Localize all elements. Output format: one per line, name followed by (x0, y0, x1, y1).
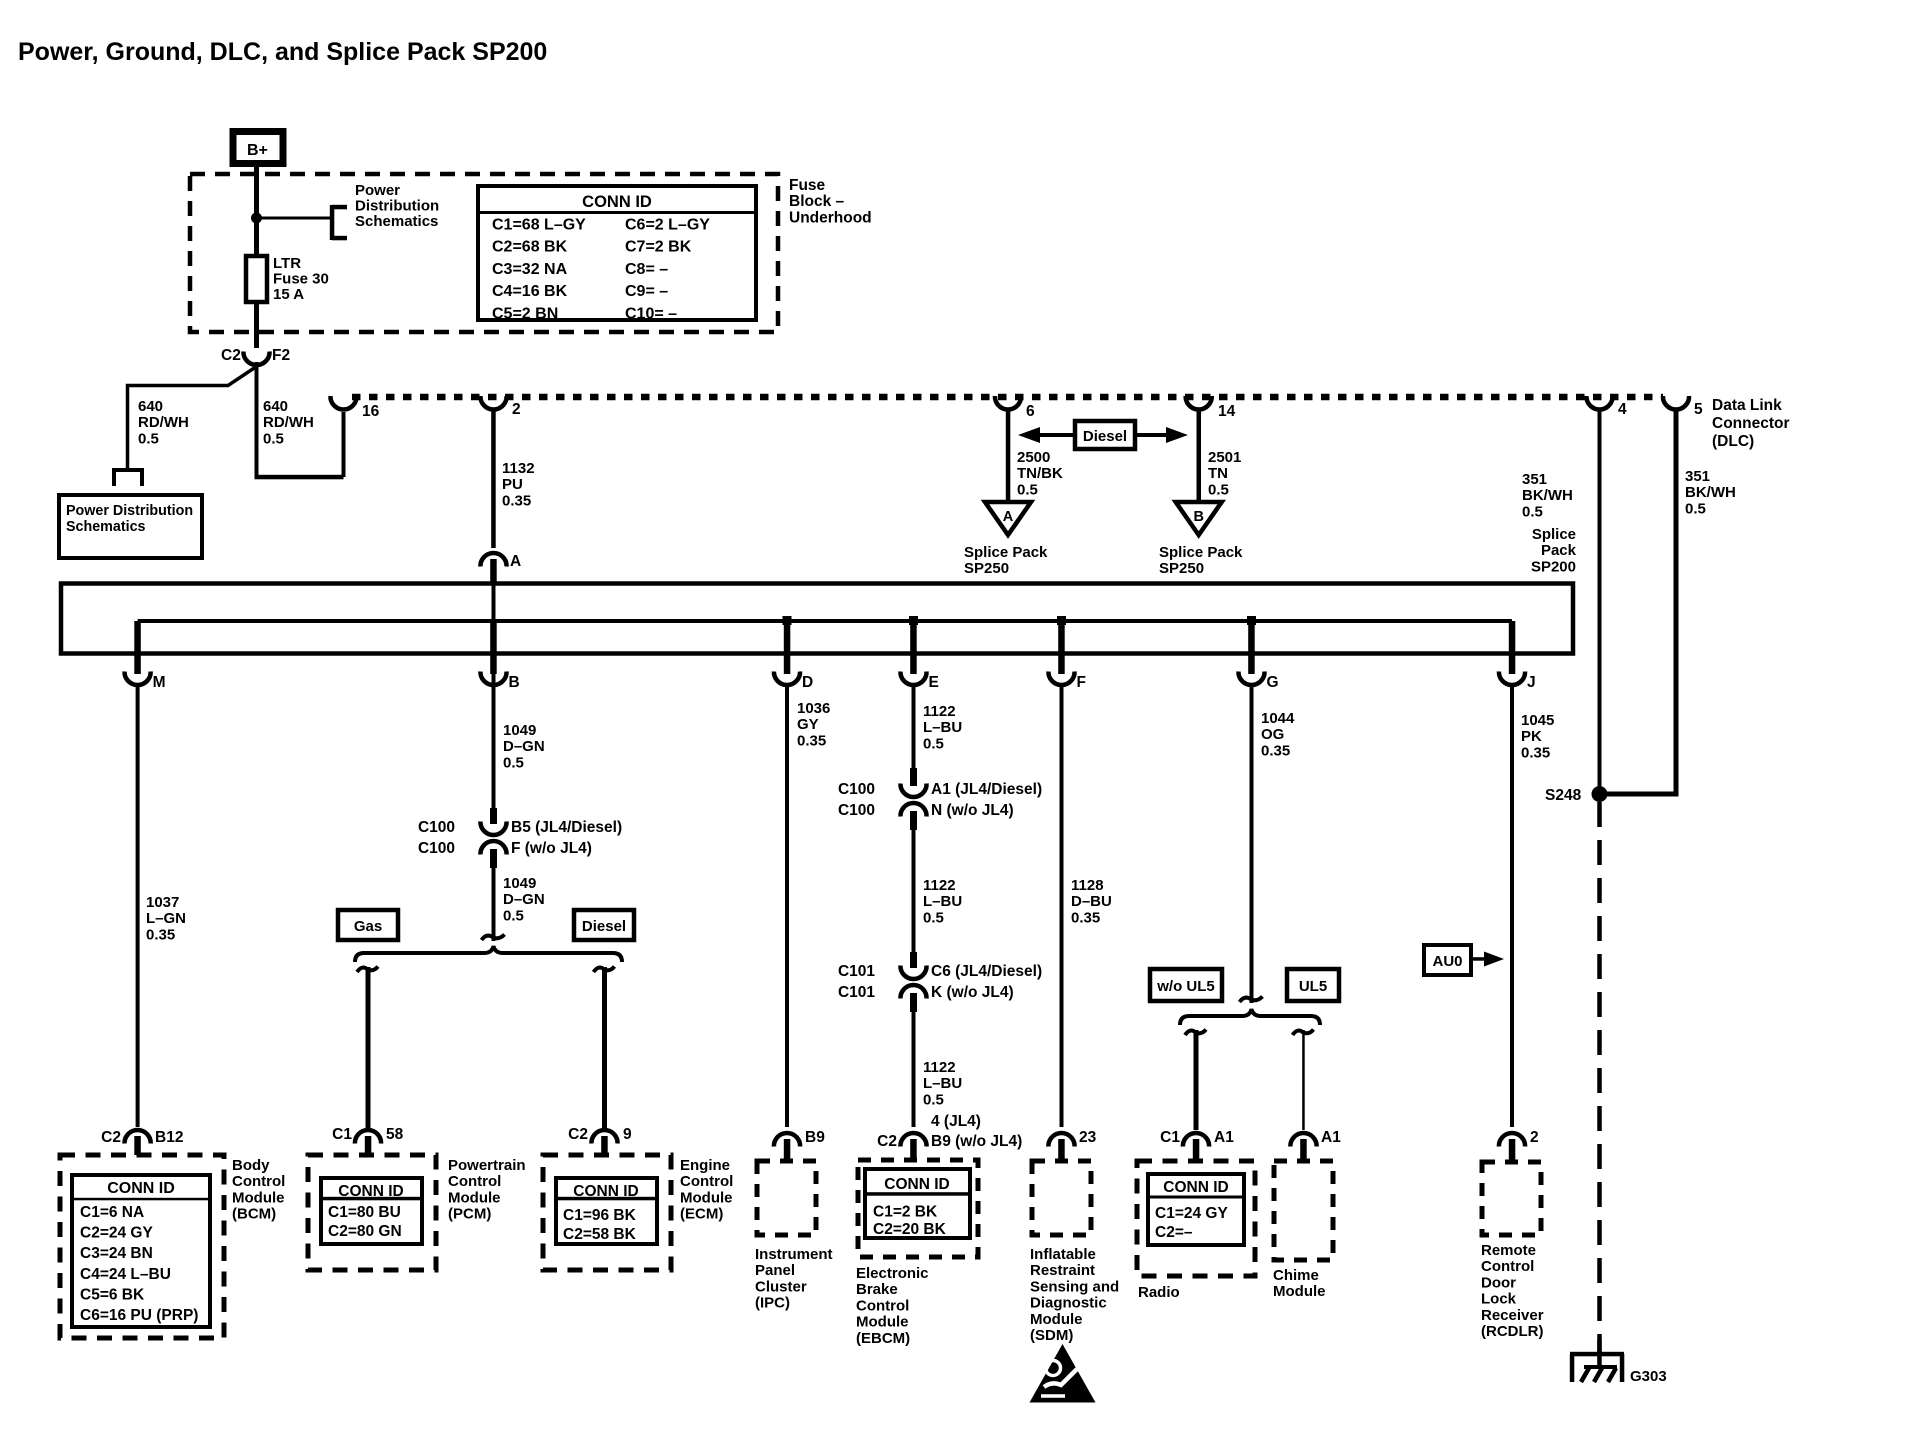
svg-text:C6=2 L–GY: C6=2 L–GY (625, 217, 710, 234)
svg-text:1122: 1122 (923, 1059, 956, 1076)
svg-text:(RCDLR): (RCDLR) (1481, 1323, 1543, 1340)
svg-text:CONN ID: CONN ID (107, 1180, 175, 1197)
bracket above power distribution schematics box (112, 468, 144, 472)
node B+ battery feed (233, 132, 283, 164)
svg-text:Radio: Radio (1138, 1284, 1180, 1301)
airbag warning triangle icon (1030, 1344, 1096, 1403)
svg-text:BK/WH: BK/WH (1522, 487, 1573, 504)
svg-text:B5 (JL4/Diesel): B5 (JL4/Diesel) (511, 819, 622, 836)
svg-text:Module: Module (856, 1314, 909, 1331)
wire 640 RD/WH left branch (128, 367, 257, 469)
svg-text:UL5: UL5 (1299, 978, 1327, 995)
svg-text:0.5: 0.5 (1685, 500, 1706, 517)
connector B9 at IPC (774, 1133, 800, 1147)
wire break mark at gas/diesel brace (482, 935, 505, 941)
svg-text:Fuse: Fuse (789, 177, 826, 194)
BCM dashed box (60, 1155, 224, 1338)
svg-text:2500: 2500 (1017, 449, 1050, 466)
wire B+ down into fuse block (254, 166, 259, 256)
svg-text:N (w/o JL4): N (w/o JL4) (931, 802, 1014, 819)
UL5 option box (1287, 969, 1339, 1001)
Diesel option box (split) (574, 910, 634, 940)
svg-text:0.35: 0.35 (1071, 909, 1100, 926)
svg-text:L–GN: L–GN (146, 910, 186, 927)
svg-text:C6 (JL4/Diesel): C6 (JL4/Diesel) (931, 963, 1042, 980)
wire 1044 OG (1250, 685, 1254, 1003)
brace gas/diesel split (355, 946, 622, 962)
svg-text:2: 2 (1530, 1129, 1539, 1146)
svg-text:Powertrain: Powertrain (448, 1157, 526, 1174)
svg-text:0.5: 0.5 (503, 754, 524, 771)
svg-text:0.35: 0.35 (1521, 744, 1550, 761)
svg-text:(ECM): (ECM) (680, 1206, 723, 1223)
connector terminal 16 (330, 396, 356, 410)
svg-text:Splice: Splice (1532, 526, 1576, 543)
svg-text:CONN ID: CONN ID (1163, 1179, 1228, 1196)
wire 1122 L-BU middle (912, 828, 916, 952)
svg-text:Body: Body (232, 1157, 270, 1174)
svg-text:Control: Control (680, 1173, 733, 1190)
svg-text:C1=6 NA: C1=6 NA (80, 1204, 144, 1221)
SP200 terminal F (1057, 616, 1066, 625)
svg-text:C1=24 GY: C1=24 GY (1155, 1205, 1228, 1222)
svg-text:Distribution: Distribution (355, 198, 439, 215)
wire A through box to B (492, 583, 496, 621)
svg-text:C101: C101 (838, 963, 875, 980)
svg-text:1049: 1049 (503, 722, 536, 739)
svg-text:C5=6 BK: C5=6 BK (80, 1286, 145, 1303)
svg-text:0.35: 0.35 (797, 732, 826, 749)
svg-text:Splice Pack: Splice Pack (1159, 544, 1243, 561)
svg-text:B9: B9 (805, 1129, 825, 1146)
SDM dashed box (1032, 1161, 1091, 1235)
wire 351 BK/WH from 4 (1598, 410, 1602, 794)
wire 1132 PU (491, 410, 496, 548)
svg-text:C3=24 BN: C3=24 BN (80, 1245, 153, 1262)
svg-text:Data Link: Data Link (1712, 397, 1782, 414)
Chime dashed box (1274, 1161, 1333, 1260)
svg-text:C2=20 BK: C2=20 BK (873, 1221, 947, 1238)
diesel branch wire (602, 967, 607, 1128)
svg-text:C1: C1 (332, 1126, 352, 1143)
SP200 terminal E (909, 616, 918, 625)
svg-text:LTR: LTR (273, 255, 301, 272)
gas branch wire (366, 967, 371, 1128)
svg-text:Diesel: Diesel (582, 918, 626, 935)
svg-text:0.35: 0.35 (146, 926, 175, 943)
svg-text:351: 351 (1685, 468, 1710, 485)
svg-text:1132: 1132 (502, 460, 535, 477)
connector terminal 2 (480, 396, 506, 410)
bracket power distribution schematics tap (330, 205, 335, 240)
svg-text:Cluster: Cluster (755, 1278, 807, 1295)
svg-text:Underhood: Underhood (789, 209, 872, 226)
svg-text:Module: Module (1030, 1311, 1083, 1328)
svg-text:Restraint: Restraint (1030, 1262, 1095, 1279)
svg-text:D–BU: D–BU (1071, 893, 1112, 910)
svg-text:OG: OG (1261, 726, 1284, 743)
svg-text:C2=–: C2=– (1155, 1224, 1193, 1241)
svg-text:(EBCM): (EBCM) (856, 1330, 910, 1347)
IPC dashed box (757, 1161, 816, 1235)
splice pack SP250 triangle B (1176, 502, 1222, 535)
svg-text:A1: A1 (1214, 1129, 1234, 1146)
svg-text:B: B (509, 674, 520, 691)
Radio dashed box (1137, 1161, 1255, 1276)
connector C2 9 at ECM (591, 1130, 617, 1144)
svg-text:A1: A1 (1321, 1129, 1341, 1146)
svg-text:1122: 1122 (923, 877, 956, 894)
SP200 terminal G (1247, 616, 1256, 625)
svg-text:1045: 1045 (1521, 712, 1554, 729)
splice S248 (1592, 786, 1608, 802)
svg-text:RD/WH: RD/WH (138, 414, 189, 431)
svg-text:0.5: 0.5 (503, 907, 524, 924)
Diesel option box with arrows (1075, 421, 1135, 449)
svg-text:w/o UL5: w/o UL5 (1156, 978, 1215, 995)
wire 1049 D-GN upper (492, 653, 496, 808)
svg-text:F (w/o JL4): F (w/o JL4) (511, 840, 592, 857)
svg-text:4: 4 (1618, 401, 1627, 418)
svg-text:Control: Control (1481, 1258, 1534, 1275)
AU0 option box with arrow (1424, 945, 1471, 975)
svg-text:Block –: Block – (789, 193, 845, 210)
svg-text:1049: 1049 (503, 875, 536, 892)
svg-text:2: 2 (512, 401, 521, 418)
w/o UL5 option box (1150, 969, 1222, 1001)
svg-text:SP250: SP250 (964, 560, 1009, 577)
CONN ID table Radio (1148, 1174, 1244, 1245)
svg-text:C1=2 BK: C1=2 BK (873, 1204, 938, 1221)
wire 1122 L-BU lower (912, 1010, 916, 1127)
svg-text:0.35: 0.35 (1261, 742, 1290, 759)
svg-text:0.5: 0.5 (1017, 481, 1038, 498)
svg-text:Electronic: Electronic (856, 1265, 929, 1282)
svg-text:Schematics: Schematics (66, 519, 146, 535)
svg-text:2501: 2501 (1208, 449, 1241, 466)
svg-text:6: 6 (1026, 403, 1035, 420)
svg-text:0.5: 0.5 (923, 1091, 944, 1108)
svg-text:B12: B12 (155, 1129, 183, 1146)
junction dot on B+ wire (251, 213, 262, 224)
svg-text:C3=32 NA: C3=32 NA (492, 261, 568, 278)
svg-text:D: D (802, 674, 813, 691)
svg-text:640: 640 (263, 398, 288, 415)
RCDLR dashed box (1482, 1162, 1541, 1235)
splice pack SP250 triangle A (985, 502, 1031, 535)
svg-text:Power Distribution: Power Distribution (66, 503, 193, 519)
svg-text:Module: Module (232, 1189, 285, 1206)
svg-text:TN/BK: TN/BK (1017, 465, 1063, 482)
svg-text:D–GN: D–GN (503, 738, 545, 755)
svg-text:C6=16 PU (PRP): C6=16 PU (PRP) (80, 1307, 198, 1324)
splice pack SP200 box (61, 584, 1573, 654)
svg-text:Brake: Brake (856, 1281, 898, 1298)
wire 1049 D-GN lower (492, 866, 496, 941)
CONN ID table fuse block underhood (478, 186, 756, 320)
wire 351 BK/WH from 5 (1674, 410, 1679, 794)
svg-text:C2=24 GY: C2=24 GY (80, 1225, 153, 1242)
ECM dashed box (543, 1155, 671, 1270)
svg-text:Power: Power (355, 182, 400, 199)
svg-text:Lock: Lock (1481, 1291, 1517, 1308)
svg-text:1037: 1037 (146, 894, 179, 911)
CONN ID table BCM (72, 1175, 210, 1327)
svg-text:CONN ID: CONN ID (884, 1176, 949, 1193)
svg-text:C1=80 BU: C1=80 BU (328, 1204, 401, 1221)
svg-text:C1=96 BK: C1=96 BK (563, 1207, 637, 1224)
SP200 terminal M (134, 621, 141, 674)
connector A1 at Chime (1290, 1133, 1316, 1147)
svg-text:Inflatable: Inflatable (1030, 1246, 1096, 1263)
svg-text:RD/WH: RD/WH (263, 414, 314, 431)
svg-text:C2: C2 (568, 1126, 588, 1143)
CONN ID table PCM (321, 1178, 422, 1244)
svg-text:C1=68 L–GY: C1=68 L–GY (492, 217, 586, 234)
svg-text:C100: C100 (838, 802, 875, 819)
svg-text:C8= –: C8= – (625, 261, 668, 278)
svg-text:1128: 1128 (1071, 877, 1104, 894)
svg-text:K (w/o JL4): K (w/o JL4) (931, 984, 1014, 1001)
svg-text:M: M (153, 674, 166, 691)
svg-text:Sensing and: Sensing and (1030, 1278, 1119, 1295)
SP200 terminal D (783, 616, 792, 625)
svg-text:B+: B+ (247, 142, 268, 159)
svg-text:Door: Door (1481, 1274, 1516, 1291)
svg-text:A: A (1003, 509, 1014, 525)
svg-text:(IPC): (IPC) (755, 1295, 790, 1312)
svg-text:TN: TN (1208, 465, 1228, 482)
connector terminal A into SP200 (480, 553, 506, 567)
svg-text:Module: Module (1273, 1283, 1326, 1300)
wire 2501 TN (1197, 410, 1202, 500)
svg-text:Receiver: Receiver (1481, 1307, 1544, 1324)
svg-text:(DLC): (DLC) (1712, 433, 1754, 450)
svg-text:Diesel: Diesel (1083, 428, 1127, 445)
Gas option box (338, 910, 398, 940)
radio branch wire (1194, 1030, 1199, 1130)
svg-text:E: E (929, 674, 939, 691)
connector C2 B9 at EBCM (900, 1133, 926, 1147)
SP200 terminal J (1509, 621, 1516, 674)
svg-text:0.5: 0.5 (263, 430, 284, 447)
svg-text:14: 14 (1218, 403, 1236, 420)
EBCM dashed box (858, 1160, 978, 1257)
svg-text:Instrument: Instrument (755, 1246, 833, 1263)
svg-text:351: 351 (1522, 471, 1547, 488)
svg-text:Schematics: Schematics (355, 213, 438, 230)
connector 2 at RCDLR (1499, 1133, 1525, 1147)
wire 1045 PK (1510, 685, 1514, 1127)
svg-text:F2: F2 (272, 347, 290, 364)
svg-text:Control: Control (448, 1173, 501, 1190)
connector terminal 5 (1663, 396, 1689, 410)
svg-text:1036: 1036 (797, 700, 830, 717)
svg-text:C5=2 BN: C5=2 BN (492, 305, 558, 322)
svg-text:Panel: Panel (755, 1262, 795, 1279)
svg-text:C2=80 GN: C2=80 GN (328, 1223, 402, 1240)
svg-text:(PCM): (PCM) (448, 1206, 491, 1223)
svg-text:C100: C100 (418, 840, 455, 857)
svg-text:Fuse 30: Fuse 30 (273, 271, 329, 288)
wire 1122 L-BU upper (912, 685, 916, 768)
SP200 terminal B (490, 621, 497, 674)
svg-text:BK/WH: BK/WH (1685, 484, 1736, 501)
svg-text:S248: S248 (1545, 787, 1582, 804)
svg-text:C2: C2 (221, 347, 241, 364)
wire break mark at UL5 brace (1240, 997, 1263, 1003)
connector terminal 6 (995, 396, 1021, 410)
svg-text:15 A: 15 A (273, 286, 304, 303)
svg-text:SP250: SP250 (1159, 560, 1204, 577)
svg-text:C10= –: C10= – (625, 305, 677, 322)
chime branch wire (1302, 1030, 1305, 1130)
connector C1 58 at PCM (355, 1130, 381, 1144)
svg-text:0.5: 0.5 (1522, 503, 1543, 520)
ground G303 (1597, 1340, 1602, 1354)
svg-text:F: F (1077, 674, 1086, 691)
svg-text:L–BU: L–BU (923, 719, 962, 736)
CONN ID table ECM (556, 1178, 657, 1244)
svg-text:PU: PU (502, 476, 523, 493)
svg-text:C101: C101 (838, 984, 875, 1001)
svg-text:Pack: Pack (1541, 542, 1577, 559)
svg-text:C1: C1 (1160, 1129, 1180, 1146)
DLC dotted bus wire (352, 394, 1663, 401)
svg-text:J: J (1527, 674, 1536, 691)
svg-text:5: 5 (1694, 401, 1703, 418)
svg-text:Remote: Remote (1481, 1242, 1536, 1259)
wire 1128 D-BU (1060, 685, 1064, 1127)
svg-text:Gas: Gas (354, 918, 382, 935)
wire junction to schematics bracket (257, 217, 332, 220)
svg-text:AU0: AU0 (1432, 953, 1462, 970)
svg-text:640: 640 (138, 398, 163, 415)
svg-text:C2: C2 (101, 1129, 121, 1146)
svg-text:1122: 1122 (923, 703, 956, 720)
svg-text:C2=58 BK: C2=58 BK (563, 1226, 637, 1243)
connector C1 A1 at Radio (1183, 1133, 1209, 1147)
inline connector C100 A1/N (910, 768, 917, 786)
svg-text:C7=2 BK: C7=2 BK (625, 239, 692, 256)
wire 640 RD/WH right branch down to connector 16 (255, 362, 259, 477)
svg-text:C100: C100 (838, 781, 875, 798)
wire 2500 TN/BK (1006, 410, 1011, 500)
svg-text:Power, Ground, DLC, and Splice: Power, Ground, DLC, and Splice Pack SP20… (18, 38, 547, 66)
svg-text:Chime: Chime (1273, 1267, 1319, 1284)
inline connector C100 B5/F (490, 808, 497, 824)
CONN ID table EBCM (865, 1169, 970, 1238)
PCM dashed box (308, 1155, 436, 1270)
svg-text:Module: Module (680, 1189, 733, 1206)
svg-text:Control: Control (856, 1297, 909, 1314)
svg-text:Engine: Engine (680, 1157, 730, 1174)
svg-text:Control: Control (232, 1173, 285, 1190)
svg-text:CONN ID: CONN ID (582, 193, 652, 211)
connector C2 F2 below fuse block (243, 352, 269, 366)
svg-text:Diagnostic: Diagnostic (1030, 1295, 1107, 1312)
svg-text:C100: C100 (418, 819, 455, 836)
svg-text:0.5: 0.5 (923, 735, 944, 752)
svg-text:GY: GY (797, 716, 819, 733)
svg-text:C2=68 BK: C2=68 BK (492, 239, 568, 256)
svg-text:4 (JL4): 4 (JL4) (931, 1113, 981, 1130)
svg-text:9: 9 (623, 1126, 632, 1143)
svg-text:(SDM): (SDM) (1030, 1327, 1073, 1344)
wire 1037 L-GN (136, 685, 140, 1127)
svg-text:0.5: 0.5 (138, 430, 159, 447)
svg-text:C9= –: C9= – (625, 283, 668, 300)
svg-text:1044: 1044 (1261, 710, 1295, 727)
inline connector C101 C6/K (910, 952, 917, 968)
svg-text:PK: PK (1521, 728, 1542, 745)
connector 23 at SDM (1048, 1133, 1074, 1147)
svg-text:B: B (1193, 509, 1203, 525)
connector terminal 14 (1186, 396, 1212, 410)
svg-text:C4=16 BK: C4=16 BK (492, 283, 568, 300)
brace UL5 split (1180, 1009, 1320, 1025)
dashed ground wire below S248 (1597, 802, 1602, 1352)
svg-text:0.5: 0.5 (923, 909, 944, 926)
svg-text:Splice Pack: Splice Pack (964, 544, 1048, 561)
SP200 internal bus bar (138, 619, 1512, 623)
svg-text:SP200: SP200 (1531, 558, 1576, 575)
connector terminal 4 (1586, 396, 1612, 410)
svg-text:D–GN: D–GN (503, 891, 545, 908)
svg-text:Connector: Connector (1712, 415, 1790, 432)
fuse block underhood dashed box (190, 174, 778, 332)
svg-text:16: 16 (362, 403, 380, 420)
svg-text:B9 (w/o JL4): B9 (w/o JL4) (931, 1133, 1022, 1150)
svg-text:A1 (JL4/Diesel): A1 (JL4/Diesel) (931, 781, 1042, 798)
svg-text:0.5: 0.5 (1208, 481, 1229, 498)
svg-text:Module: Module (448, 1189, 501, 1206)
power distribution schematics box (59, 495, 202, 558)
svg-text:G: G (1267, 674, 1279, 691)
svg-text:23: 23 (1079, 1129, 1097, 1146)
svg-text:0.35: 0.35 (502, 492, 531, 509)
svg-text:L–BU: L–BU (923, 1075, 962, 1092)
fuse LTR Fuse 30 15A (254, 218, 259, 258)
svg-text:C4=24 L–BU: C4=24 L–BU (80, 1266, 171, 1283)
svg-text:(BCM): (BCM) (232, 1206, 276, 1223)
wire 1036 GY (785, 685, 789, 1127)
connector C2 B12 at BCM (125, 1130, 151, 1144)
svg-text:L–BU: L–BU (923, 893, 962, 910)
svg-text:G303: G303 (1630, 1368, 1667, 1385)
svg-text:A: A (510, 553, 521, 570)
svg-text:58: 58 (386, 1126, 404, 1143)
svg-text:C2: C2 (877, 1133, 897, 1150)
